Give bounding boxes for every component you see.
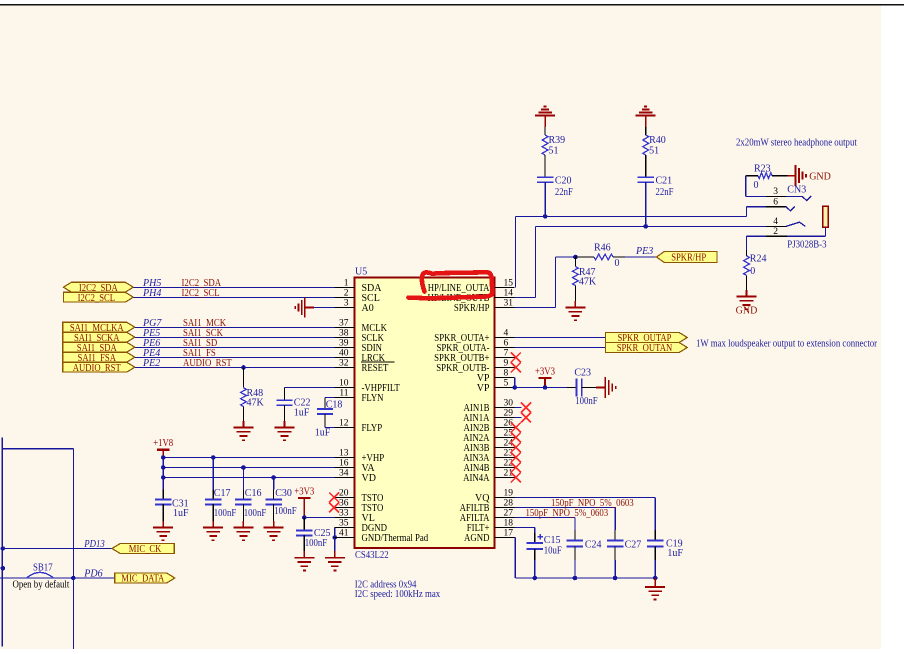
svg-text:C27: C27 — [625, 540, 642, 551]
svg-text:29: 29 — [504, 409, 514, 419]
wire VP to C23 — [545, 387, 576, 389]
pin 27 AFILTA — [460, 509, 515, 524]
svg-text:1uF: 1uF — [315, 428, 331, 439]
svg-text:CN3: CN3 — [787, 184, 806, 195]
wire AFILTA (pin 27) to C24 — [515, 508, 609, 540]
junction pin41 — [333, 535, 338, 540]
junction left-edge — [1, 566, 6, 571]
svg-text:2x20mW stereo headphone output: 2x20mW stereo headphone output — [736, 137, 857, 148]
wire MIC_DATA net PD6 — [73, 569, 115, 580]
wire SPKR_OUTA+ (pin 4) — [515, 337, 606, 339]
svg-text:10uF: 10uF — [544, 546, 562, 557]
pin 28 AFILTB — [460, 499, 515, 514]
wire SPKR/HP from pin 31 — [515, 257, 577, 308]
wire VA rail (pin 16) — [163, 467, 334, 469]
pin 9 SPKR_OUTB- — [436, 359, 514, 374]
connector CN3 pin 2 — [747, 227, 826, 237]
svg-text:100nF: 100nF — [274, 506, 297, 517]
junction C30 rail — [271, 475, 276, 480]
ground DGND — [325, 551, 345, 570]
svg-text:GND: GND — [736, 306, 758, 317]
svg-text:6: 6 — [773, 197, 778, 207]
junction C17 rail — [211, 455, 216, 460]
pin 38 SCLK — [335, 329, 385, 344]
wire to SPKR/HP port — [625, 246, 656, 257]
svg-text:C18: C18 — [326, 399, 343, 410]
pin 3 A0 — [335, 299, 374, 314]
svg-text:14: 14 — [504, 289, 514, 299]
capacitor C30 100nF — [265, 478, 297, 522]
svg-text:C23: C23 — [574, 367, 591, 378]
pin 21 AIN4A — [463, 469, 514, 484]
svg-text:C21: C21 — [656, 176, 673, 187]
svg-text:6: 6 — [504, 339, 509, 349]
svg-text:+3V3: +3V3 — [294, 487, 314, 498]
ground C16 — [233, 521, 253, 540]
svg-text:GND/Thermal Pad: GND/Thermal Pad — [362, 533, 429, 544]
pin 13 +VHP — [335, 449, 385, 464]
pin 33 VL — [335, 509, 375, 524]
svg-text:2: 2 — [773, 227, 778, 237]
pin 10 -VHPFILT — [335, 379, 400, 394]
junction rail C27 — [613, 576, 618, 581]
wire I2C2_SDA net PH5 — [133, 278, 334, 289]
ground C17 — [203, 521, 223, 540]
capacitor C15 10uF (polarized) — [527, 534, 563, 557]
port AUDIO_RST — [63, 362, 135, 374]
pin 29 AIN1A — [463, 409, 514, 424]
svg-text:MIC_CK: MIC_CK — [129, 543, 162, 555]
svg-text:MIC_DATA: MIC_DATA — [121, 573, 164, 585]
svg-text:11: 11 — [339, 389, 348, 399]
power +1V8 — [153, 438, 173, 457]
no-connect X pin 36 — [329, 503, 339, 513]
port SAI1_MCLKA — [63, 322, 135, 334]
pin 30 AIN1B — [464, 399, 515, 414]
svg-text:22nF: 22nF — [656, 187, 674, 198]
no-connect X pin 22 — [511, 463, 521, 473]
no-connect X pin 24 — [511, 443, 521, 453]
wire stub pin 30 — [515, 407, 522, 409]
wire stub pin 29 — [515, 417, 522, 419]
wire R23 to jack sleeve — [746, 176, 766, 197]
wire I2C2_SCL net PH4 — [133, 288, 334, 299]
pin 4 SPKR_OUTA+ — [434, 329, 514, 344]
wire headphone left channel — [516, 215, 747, 217]
svg-text:0: 0 — [754, 180, 759, 191]
red highlight annotation HP/LINE_OUTA — [409, 272, 493, 298]
svg-text:PD6: PD6 — [83, 569, 102, 580]
wire +1V8 column — [162, 458, 164, 500]
window border line — [0, 4, 904, 6]
pin 35 DGND — [335, 519, 388, 534]
svg-text:AUDIO_RST: AUDIO_RST — [73, 362, 121, 374]
svg-text:FLYN: FLYN — [362, 393, 384, 404]
svg-text:27: 27 — [504, 509, 514, 519]
resistor R39 51 — [542, 127, 565, 177]
svg-text:VP: VP — [477, 383, 490, 394]
svg-text:R23: R23 — [754, 163, 771, 174]
svg-text:0: 0 — [615, 258, 620, 269]
pin 26 AIN2B — [464, 419, 515, 434]
svg-text:C16: C16 — [245, 488, 262, 499]
svg-text:150pF_NPO_5%_0603: 150pF_NPO_5%_0603 — [526, 508, 609, 519]
svg-text:Open by default: Open by default — [13, 580, 70, 591]
pin 17 AGND — [464, 529, 515, 544]
capacitor C23 100nF — [574, 367, 598, 407]
wire -VHPFILT — [285, 387, 335, 389]
wire SAI1_SCK net PE5 — [135, 328, 335, 339]
no-connect X pin 9 — [511, 363, 521, 373]
port MIC_CK — [112, 543, 174, 555]
no-connect X pin 20 — [329, 493, 339, 503]
svg-text:38: 38 — [339, 329, 349, 339]
svg-text:32: 32 — [339, 359, 349, 369]
port SPKR_OUTAP — [606, 332, 688, 344]
junction +3V3 VP — [543, 385, 548, 390]
svg-text:7: 7 — [504, 349, 509, 359]
pin 2 SCL — [335, 289, 380, 304]
svg-text:1uF: 1uF — [173, 508, 189, 519]
wire FILT+ (pin 18) to C15 — [515, 528, 535, 543]
pin 34 VD — [335, 469, 376, 484]
pin 7 SPKR_OUTB+ — [434, 349, 514, 364]
svg-text:9: 9 — [504, 359, 509, 369]
wire DGND/thermal bracket (pins 35,41) — [334, 528, 336, 552]
svg-text:3: 3 — [344, 299, 349, 309]
svg-text:FLYP: FLYP — [362, 423, 383, 434]
svg-text:1uF: 1uF — [294, 407, 310, 418]
wire AFILTB (pin 28) to C27 — [515, 498, 634, 541]
wire C20 down — [544, 182, 546, 217]
svg-text:C20: C20 — [555, 176, 572, 187]
resistor R46 0 — [575, 243, 625, 269]
svg-text:36: 36 — [339, 499, 349, 509]
wire MIC_CK net PD13 — [3, 539, 112, 550]
svg-text:2: 2 — [344, 289, 349, 299]
svg-text:47K: 47K — [579, 277, 597, 288]
wire C21 down — [645, 182, 647, 227]
solder bridge SB17 (open by default) — [0, 563, 73, 591]
capacitor C16 100nF — [235, 468, 266, 522]
capacitor C27 150pF — [607, 540, 641, 551]
connector outline (left edge component) — [2, 438, 73, 650]
capacitor C19 1uF — [647, 538, 683, 559]
no-connect X pin 26 — [511, 423, 521, 433]
svg-text:PJ3028B-3: PJ3028B-3 — [787, 240, 826, 251]
capacitor C31 1uF — [155, 499, 189, 522]
resistor R40 51 — [643, 127, 666, 177]
svg-text:C30: C30 — [275, 488, 292, 499]
svg-text:I2C2_SCL: I2C2_SCL — [78, 292, 115, 304]
capacitor C25 100nF — [296, 518, 330, 552]
junction +3V3/C25 — [302, 515, 307, 520]
ground R47 — [565, 301, 585, 320]
junction C16 rail — [241, 465, 246, 470]
pin 12 FLYP — [335, 419, 383, 434]
pin 14 HP/LINE_OUTB — [428, 289, 515, 304]
wire VQ (pin 19) to C19 — [515, 498, 656, 541]
pin 11 FLYN — [335, 389, 384, 404]
junction MIC_CK — [1, 546, 6, 551]
junction C21 — [643, 224, 648, 229]
pin 39 SDIN — [335, 339, 383, 354]
port SPKR_OUTAN — [606, 342, 688, 354]
capacitor C22 1uF — [276, 388, 310, 422]
wire VD rail (pin 34) — [163, 477, 334, 479]
pin 16 VA — [335, 459, 376, 474]
pin 23 AIN3A — [463, 449, 514, 464]
svg-text:I2C2_SCL: I2C2_SCL — [182, 288, 220, 299]
wire HP/LINE_OUTA (pin 15) up — [515, 216, 517, 287]
junction rail C24 — [573, 576, 578, 581]
connector CN3 pin 3 — [766, 187, 811, 200]
capacitor C20 22nF — [537, 176, 573, 199]
junction rail C19 — [653, 576, 658, 581]
pin 31 SPKR/HP — [454, 299, 515, 314]
svg-text:51: 51 — [649, 145, 659, 156]
pin 36 TSTO — [335, 499, 384, 514]
port MIC_DATA — [115, 573, 175, 585]
svg-text:100nF: 100nF — [575, 396, 598, 407]
pin 6 SPKR_OUTA- — [437, 339, 515, 354]
connector CN3 plug body — [823, 206, 829, 227]
svg-text:4: 4 — [504, 329, 509, 339]
wire HP/LINE_OUTB (pin 14) up — [515, 226, 536, 297]
resistor R24 0 — [744, 236, 767, 290]
svg-text:100nF: 100nF — [244, 508, 267, 519]
svg-text:4: 4 — [773, 217, 778, 227]
svg-text:AGND: AGND — [464, 533, 490, 544]
svg-text:A0: A0 — [362, 303, 374, 314]
ground C23 — [596, 377, 616, 398]
wire AUDIO_RST net PE2 — [135, 358, 335, 369]
ground C25 — [294, 551, 314, 570]
svg-text:15: 15 — [504, 279, 514, 289]
pin 20 TSTO — [335, 489, 384, 504]
svg-text:30: 30 — [504, 399, 514, 409]
pin 37 MCLK — [335, 319, 388, 334]
capacitor C24 150pF — [567, 540, 602, 551]
ground C22 — [275, 421, 295, 440]
junction VP — [513, 385, 518, 390]
pin 22 AIN4B — [464, 459, 515, 474]
svg-text:37: 37 — [339, 319, 349, 329]
svg-text:5: 5 — [504, 379, 509, 389]
svg-text:35: 35 — [339, 519, 349, 529]
svg-text:41: 41 — [339, 529, 349, 539]
svg-text:0: 0 — [750, 266, 755, 277]
ground R40 (top) — [636, 107, 656, 128]
pin 41 GND/Thermal Pad — [335, 529, 429, 544]
svg-text:1uF: 1uF — [667, 548, 683, 559]
wire AGND (pin 17) down — [514, 538, 517, 579]
wire headphone right channel — [535, 225, 766, 227]
svg-text:100nF: 100nF — [305, 538, 328, 549]
pin 5 VP — [477, 379, 515, 394]
no-connect X pin 30 — [521, 403, 531, 413]
svg-text:28: 28 — [504, 499, 514, 509]
capacitor C21 22nF — [638, 176, 674, 199]
pin 25 AIN2A — [463, 429, 514, 444]
svg-text:40: 40 — [339, 349, 349, 359]
wire analog ground rail — [515, 547, 655, 578]
ground C30 — [264, 521, 284, 540]
ground R24 GND — [736, 290, 758, 317]
junction +1V8 rails — [161, 455, 166, 460]
resistor R23 0 — [746, 163, 788, 191]
svg-text:PE2: PE2 — [142, 358, 160, 369]
wire SPKR_OUTA- (pin 6) — [515, 347, 606, 349]
port SAI1_SDA — [63, 342, 135, 354]
capacitor C18 1uF (FLYN-FLYP) — [315, 398, 343, 439]
svg-text:47K: 47K — [247, 397, 265, 408]
connector CN3 pin 4 — [766, 217, 805, 227]
ground A0 (pin 3) — [295, 298, 334, 318]
resistor R48 47K — [241, 368, 265, 422]
svg-text:12: 12 — [339, 419, 349, 429]
junction AUDIO_RST/R48 — [241, 365, 246, 370]
port SPKR/HP — [656, 252, 717, 264]
svg-text:19: 19 — [504, 489, 514, 499]
pin 24 AIN3B — [464, 439, 515, 454]
resistor R47 47K — [573, 257, 597, 301]
ground C31 — [153, 521, 173, 540]
pin 8 VP — [477, 369, 515, 384]
svg-text:1: 1 — [344, 279, 349, 289]
svg-text:31: 31 — [504, 299, 514, 309]
svg-text:VD: VD — [362, 473, 376, 484]
pin 18 FILT+ — [467, 519, 515, 534]
svg-text:18: 18 — [504, 519, 514, 529]
port I2C2_SDA — [63, 282, 133, 294]
svg-text:CS43L22: CS43L22 — [355, 550, 389, 561]
no-connect X pin 25 — [511, 433, 521, 443]
wire +VHP rail (pin 13) — [163, 457, 334, 459]
svg-text:PE3: PE3 — [635, 246, 653, 257]
svg-text:3: 3 — [773, 187, 778, 197]
ground R39 (top) — [535, 107, 555, 128]
junction MIC_DATA — [71, 576, 76, 581]
wire SAI1_MCK net PG7 — [135, 318, 335, 329]
no-connect X pin 23 — [511, 453, 521, 463]
pin 32 RESET — [335, 359, 395, 374]
svg-text:SB17: SB17 — [33, 563, 53, 574]
svg-text:C24: C24 — [585, 540, 602, 551]
port SAI1_SCKA — [63, 332, 135, 344]
pin 1 SDA — [335, 279, 383, 294]
svg-text:AIN4A: AIN4A — [463, 473, 490, 484]
svg-text:20: 20 — [339, 489, 349, 499]
junction rail C15 — [533, 576, 538, 581]
wire VP bracket (pins 8,5) — [515, 378, 546, 388]
connector CN3 pin 6 — [747, 197, 795, 216]
svg-text:RESET: RESET — [362, 363, 389, 374]
junction R47 — [573, 255, 578, 260]
svg-text:GND: GND — [809, 171, 831, 182]
ground R23 GND — [787, 165, 831, 186]
svg-text:150pF_NPO_5%_0603: 150pF_NPO_5%_0603 — [551, 498, 634, 509]
svg-text:34: 34 — [339, 469, 349, 479]
pin 19 VQ — [475, 489, 514, 504]
svg-text:51: 51 — [549, 145, 559, 156]
svg-text:I2C speed: 100kHz max: I2C speed: 100kHz max — [355, 589, 440, 600]
svg-text:PD13: PD13 — [83, 539, 104, 550]
power +3V3 (VP) — [535, 366, 555, 387]
svg-text:13: 13 — [339, 449, 349, 459]
port SAI1_FSA — [63, 352, 135, 364]
svg-text:10: 10 — [339, 379, 349, 389]
wire SAI1_SD net PE6 — [135, 338, 335, 349]
svg-text:1W max loudspeaker output to e: 1W max loudspeaker output to extension c… — [696, 338, 878, 349]
svg-text:+1V8: +1V8 — [153, 438, 173, 449]
wire SAI1_FS net PE4 — [135, 348, 335, 359]
svg-text:SPKR/HP: SPKR/HP — [671, 252, 706, 264]
power +3V3 (VL) — [294, 487, 314, 518]
svg-text:R46: R46 — [594, 243, 611, 254]
ground R48 — [234, 421, 254, 440]
svg-text:SPKR/HP: SPKR/HP — [454, 303, 490, 314]
svg-text:39: 39 — [339, 339, 349, 349]
wire VL (pin 33) — [304, 517, 334, 519]
svg-text:100nF: 100nF — [214, 508, 237, 519]
no-connect X pin 7 — [511, 353, 521, 363]
svg-text:C15: C15 — [544, 535, 561, 546]
svg-text:+3V3: +3V3 — [535, 366, 555, 377]
svg-text:17: 17 — [504, 529, 514, 539]
no-connect X pin 29 — [521, 413, 531, 423]
no-connect X pin 21 — [511, 473, 521, 483]
svg-text:PH4: PH4 — [142, 288, 161, 299]
svg-text:SPKR_OUTAN: SPKR_OUTAN — [617, 342, 673, 354]
svg-text:R24: R24 — [750, 253, 767, 264]
junction C20 — [543, 214, 548, 219]
svg-text:16: 16 — [339, 459, 349, 469]
svg-text:U5: U5 — [355, 267, 367, 278]
svg-text:C17: C17 — [214, 488, 231, 499]
svg-text:8: 8 — [504, 369, 509, 379]
svg-text:AUDIO_RST: AUDIO_RST — [183, 358, 232, 369]
IC U5 CS43L22 audio codec body — [355, 267, 495, 561]
ground analog rail — [645, 578, 665, 600]
svg-text:33: 33 — [339, 509, 349, 519]
capacitor C17 100nF — [205, 458, 237, 522]
pin 40 LRCK — [335, 349, 386, 364]
port I2C2_SCL — [63, 292, 133, 304]
pin 15 HP/LINE_OUTA — [428, 279, 515, 294]
svg-text:22nF: 22nF — [555, 187, 573, 198]
